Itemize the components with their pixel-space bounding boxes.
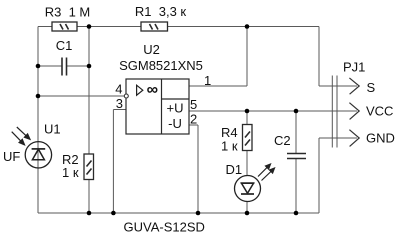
wire top rail R3 to R1 — [77, 26, 141, 28]
svg-text:GND: GND — [366, 131, 395, 146]
wire C1 row right — [67, 65, 90, 67]
op-amp U2 amplifier symbol — [137, 85, 143, 95]
wire output feedback vertical — [246, 27, 248, 87]
wire pin 2 horizontal — [189, 124, 198, 126]
wire second vertical lower (R2 to ground rail) — [88, 180, 90, 214]
resistor R2 — [84, 154, 94, 180]
svg-text:C2: C2 — [274, 133, 291, 148]
wire pin 2 vertical to ground rail — [197, 125, 199, 213]
junction ground pin2 — [196, 211, 201, 216]
junction at R3 output node — [87, 24, 92, 29]
svg-text:∞: ∞ — [147, 82, 158, 99]
svg-text:4: 4 — [115, 82, 122, 97]
svg-text:S: S — [367, 80, 376, 95]
op-amp U2 box — [126, 79, 189, 134]
svg-text:PJ1: PJ1 — [343, 60, 365, 75]
junction VCC C2 — [294, 109, 299, 114]
capacitor C2 — [287, 154, 306, 159]
photodiode U1 — [25, 142, 51, 168]
svg-text:1 к: 1 к — [62, 165, 79, 180]
pin GND arrow — [349, 130, 359, 147]
wire C2 top — [295, 111, 297, 154]
wire inverting input to pin 4 — [38, 95, 125, 97]
svg-text:5: 5 — [190, 97, 197, 112]
svg-text:U2: U2 — [143, 42, 160, 57]
junction ground pin3 — [111, 211, 116, 216]
wire second vertical upper (R3/C1 node to R2) — [88, 27, 90, 155]
svg-text:3: 3 — [116, 96, 123, 111]
pin VCC arrow — [349, 103, 359, 120]
junction ground R2 — [87, 211, 92, 216]
wire R4 to D1 — [246, 151, 248, 177]
wire left vertical branch — [37, 27, 39, 214]
wire S drop from top rail — [318, 27, 320, 87]
junction ground C2 — [294, 211, 299, 216]
svg-text:R1 3,3 к: R1 3,3 к — [135, 4, 187, 19]
resistor R3 — [52, 22, 77, 31]
wire ground rail riser — [318, 138, 320, 213]
wire C2 bottom — [295, 159, 297, 214]
wire R4 top — [246, 111, 248, 125]
svg-text:R3 1 M: R3 1 M — [45, 5, 91, 20]
wire C1 row left — [38, 65, 62, 67]
resistor R4 — [243, 125, 253, 151]
junction ground D1 — [245, 211, 250, 216]
pin 4 inversion bubble — [124, 94, 128, 98]
wire pin 3 vertical to ground rail — [112, 110, 114, 214]
wire VCC rail pin 5 to connector — [189, 110, 357, 112]
wire D1 to ground rail — [246, 201, 248, 213]
svg-text:U1: U1 — [44, 122, 61, 137]
wire top rail left segment — [38, 26, 52, 28]
wire GND horizontal to connector — [319, 137, 357, 139]
LED D1 light arrows — [258, 164, 275, 181]
svg-text:UF: UF — [3, 149, 20, 164]
svg-text:C1: C1 — [56, 38, 73, 53]
junction at feedback node — [245, 24, 250, 29]
junction VCC R4 — [245, 109, 250, 114]
svg-text:1 к: 1 к — [221, 139, 238, 154]
wire S horizontal to connector — [319, 85, 357, 87]
svg-text:VCC: VCC — [366, 104, 393, 119]
svg-text:-U: -U — [168, 116, 182, 131]
LED D1 — [235, 176, 261, 202]
wire output pin 1 — [189, 85, 247, 87]
capacitor C1 — [62, 58, 67, 76]
junction inverting input — [36, 94, 41, 99]
svg-text:1: 1 — [204, 73, 211, 88]
svg-text:2: 2 — [190, 112, 197, 127]
connector PJ1 bars — [332, 76, 337, 148]
svg-text:D1: D1 — [226, 162, 243, 177]
svg-text:SGM8521XN5: SGM8521XN5 — [119, 58, 203, 73]
junction C1 left — [36, 64, 41, 69]
wire top rail R1 to corner — [168, 26, 320, 28]
svg-text:GUVA-S12SD: GUVA-S12SD — [124, 220, 205, 235]
wire pin 3 horizontal — [113, 109, 126, 111]
wire ground rail — [38, 212, 319, 214]
svg-text:+U: +U — [167, 101, 184, 116]
resistor R1 — [141, 22, 168, 31]
pin S arrow — [349, 78, 359, 94]
photodiode U1 light arrows — [12, 127, 30, 145]
junction C1 right — [87, 64, 92, 69]
